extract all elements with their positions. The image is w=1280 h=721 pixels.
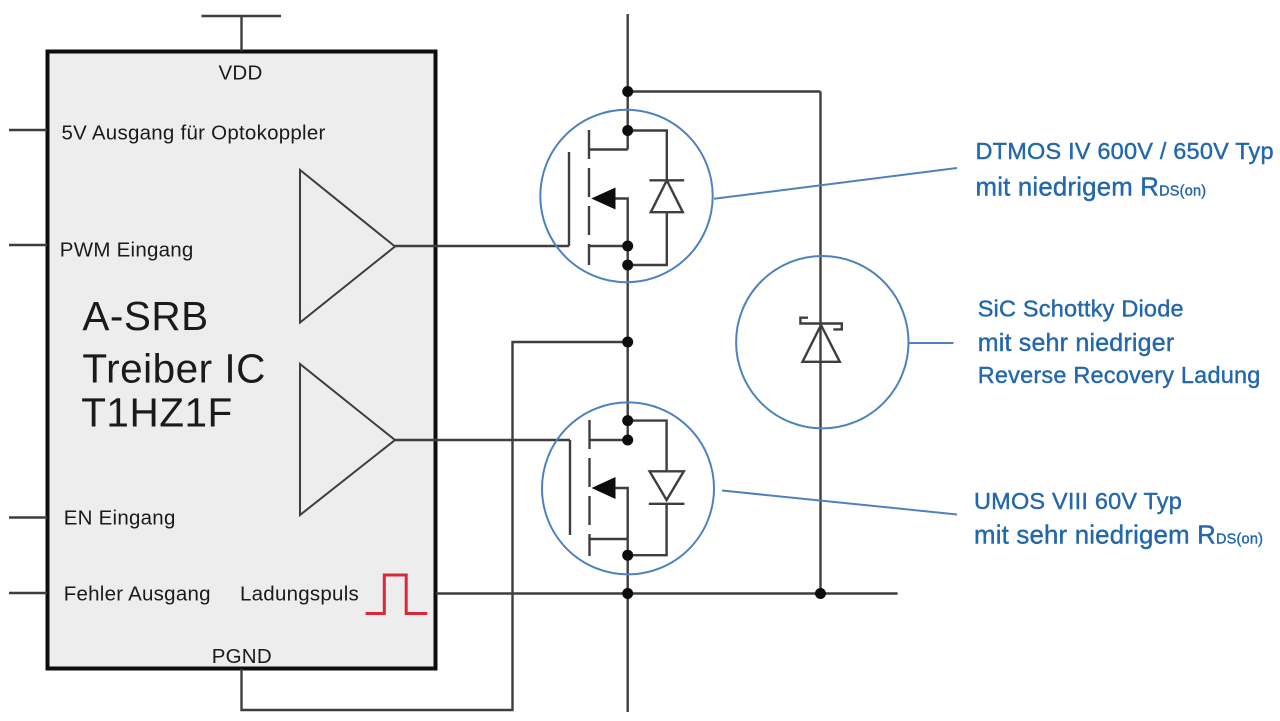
highlight circle Q2: [542, 402, 714, 574]
Q2 source lead: [590, 538, 628, 540]
svg-text:DTMOS IV 600V / 650V Typ: DTMOS IV 600V / 650V Typ: [976, 138, 1274, 164]
Q1 source lead: [589, 245, 628, 247]
D3 cathode bar with schottky hooks: [800, 318, 841, 330]
svg-text:Treiber IC: Treiber IC: [82, 346, 266, 392]
transistor Q1 (upper MOSFET): [569, 130, 628, 342]
junction node Q2 drain: [622, 435, 633, 446]
wire main vertical drain bus (top): [627, 14, 629, 150]
junction node midpoint: [622, 337, 633, 348]
diode D2 (Q2 body diode): [628, 421, 685, 556]
highlight circle D3: [736, 256, 908, 428]
svg-text:SiC Schottky Diode: SiC Schottky Diode: [978, 296, 1184, 322]
diode D3 (SiC Schottky): [800, 318, 841, 362]
junction node D1 top: [622, 125, 633, 136]
pin stub EN Eingang: [9, 516, 47, 518]
junction node top branch: [622, 86, 633, 97]
wire VDD stem: [240, 16, 242, 51]
svg-text:PWM Eingang: PWM Eingang: [60, 238, 194, 261]
leader line to DTMOS text: [714, 168, 957, 199]
wire lower gate lead (driver2 output to Q2 gate): [395, 439, 570, 441]
leader line to UMOS text: [722, 491, 957, 515]
svg-text:PGND: PGND: [212, 645, 272, 668]
junction node D2 bottom: [622, 550, 633, 561]
D3 triangle: [803, 325, 840, 362]
svg-text:Ladungspuls: Ladungspuls: [240, 583, 359, 606]
wire PGND trace: [242, 342, 628, 710]
junction node D1 bottom: [622, 260, 633, 271]
Q1 body arrow: [591, 188, 615, 210]
wire top branch to cathode column: [628, 90, 821, 92]
transistor Q2 (lower MOSFET): [570, 342, 628, 712]
leader line to SiC text: [909, 342, 954, 344]
junction node D2 top: [622, 415, 633, 426]
annotation UMOS: [974, 488, 1263, 550]
Q1 drain lead: [589, 148, 628, 150]
svg-text:EN Eingang: EN Eingang: [64, 507, 176, 530]
wire Q2 source down: [627, 539, 629, 712]
buffer amplifier 1 (upper driver): [300, 170, 395, 323]
VDD supply bar: [202, 15, 282, 17]
wire upper gate lead (driver1 output to Q1 gate): [395, 245, 569, 247]
Q2 body arrow: [592, 477, 616, 499]
svg-text:T1HZ1F: T1HZ1F: [81, 390, 233, 436]
svg-text:UMOS VIII 60V Typ: UMOS VIII 60V Typ: [974, 488, 1182, 514]
pin stub PWM Eingang: [9, 244, 47, 246]
annotation DTMOS: [976, 138, 1274, 202]
wire midpoint to Q2 drain: [627, 342, 629, 440]
buffer amplifier 2 (lower driver): [300, 364, 395, 515]
svg-text:VDD: VDD: [219, 62, 263, 85]
svg-text:mit sehr niedriger: mit sehr niedriger: [978, 329, 1175, 357]
annotation SiC: [978, 296, 1261, 389]
pin stub Fehler Ausgang: [9, 592, 47, 594]
Q2 drain lead: [590, 439, 628, 441]
IC title A-SRB Treiber IC T1HZ1F: [81, 293, 266, 436]
junction node rail-D3: [815, 588, 826, 599]
pin stub 5V Ausgang: [9, 129, 47, 131]
IC body U1 (A-SRB Treiber IC T1HZ1F): [48, 52, 436, 669]
junction node rail-Q2: [622, 588, 633, 599]
Q1 body line: [615, 199, 628, 247]
wire bottom rail (Ladungspuls output): [436, 592, 898, 594]
Q2 gate electrode: [569, 440, 571, 535]
Q2 body line: [615, 488, 628, 539]
highlight circle Q1: [540, 110, 712, 282]
junction node Q1 source: [622, 241, 633, 252]
wire Q1 source to midpoint: [627, 246, 629, 342]
Q1 channel (dashed): [588, 130, 590, 265]
Ladungspuls red pulse symbol: [366, 575, 428, 614]
svg-text:A-SRB: A-SRB: [82, 293, 208, 339]
svg-text:Fehler Ausgang: Fehler Ausgang: [64, 583, 211, 606]
svg-text:Reverse Recovery Ladung: Reverse Recovery Ladung: [978, 362, 1261, 388]
svg-text:5V Ausgang für Optokoppler: 5V Ausgang für Optokoppler: [62, 122, 326, 145]
Q2 channel (dashed): [588, 420, 590, 556]
Q1 gate electrode: [568, 152, 570, 246]
diode D1 (Q1 body diode): [628, 131, 685, 266]
wire cathode column vertical: [819, 92, 821, 594]
